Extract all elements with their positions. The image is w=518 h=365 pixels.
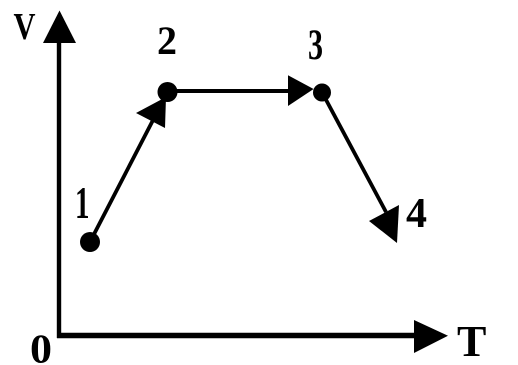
svg-text:1: 1 <box>75 178 90 228</box>
arrowhead on segment 2-3 <box>288 75 314 106</box>
svg-text:V: V <box>14 6 36 48</box>
y-axis (V) line <box>57 42 61 338</box>
arrowhead on segment 1-2 <box>136 97 166 128</box>
node dot 1 <box>80 232 100 252</box>
wire segment 3-4 <box>324 96 386 212</box>
svg-text:4: 4 <box>406 191 427 237</box>
wire segment 2-3 <box>170 89 290 93</box>
svg-text:3: 3 <box>308 22 323 69</box>
node dot 3 <box>313 84 331 102</box>
y-axis arrowhead <box>43 11 76 44</box>
x-axis arrowhead <box>414 320 448 353</box>
wire segment 1-2 <box>91 95 166 240</box>
x-axis (T) line <box>57 333 415 338</box>
arrowhead at 4 <box>369 205 399 243</box>
svg-text:T: T <box>457 317 486 365</box>
svg-text:0: 0 <box>30 326 52 365</box>
node dot 2 <box>158 82 178 102</box>
svg-text:2: 2 <box>157 18 177 63</box>
